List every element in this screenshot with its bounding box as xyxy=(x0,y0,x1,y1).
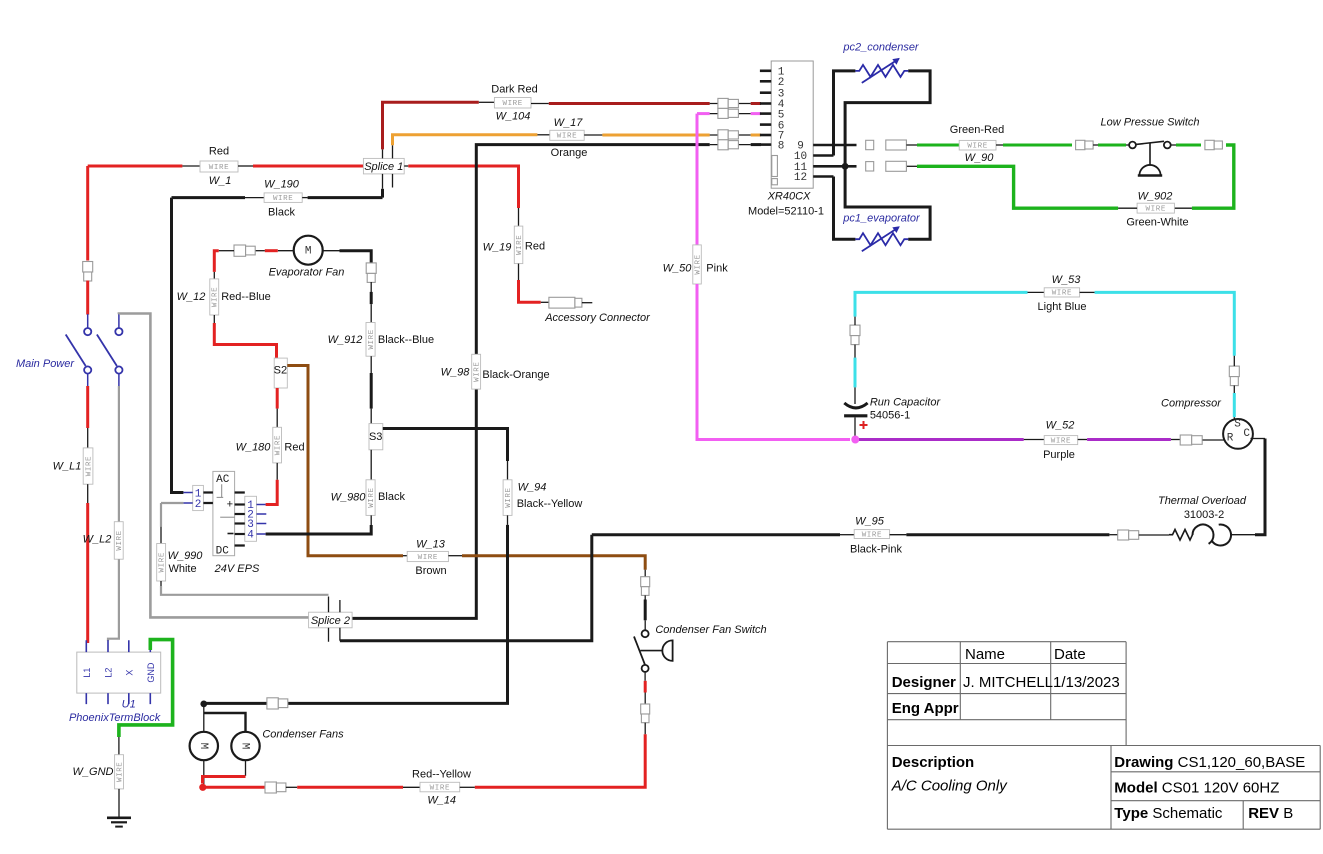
svg-text:Black: Black xyxy=(378,491,405,503)
svg-text:WIRE: WIRE xyxy=(274,435,282,455)
svg-text:W_980: W_980 xyxy=(331,492,367,504)
svg-text:L2: L2 xyxy=(104,668,114,678)
svg-text:WIRE: WIRE xyxy=(967,143,987,151)
svg-text:2: 2 xyxy=(778,77,785,89)
svg-text:A/C Cooling Only: A/C Cooling Only xyxy=(891,778,1009,795)
svg-text:2: 2 xyxy=(195,499,202,511)
svg-text:W_90: W_90 xyxy=(965,152,995,164)
svg-text:M: M xyxy=(197,743,209,750)
svg-text:WIRE: WIRE xyxy=(505,487,513,507)
svg-text:W_L2: W_L2 xyxy=(83,534,112,546)
svg-text:+: + xyxy=(227,499,233,511)
svg-text:WIRE: WIRE xyxy=(116,530,124,550)
svg-text:U1: U1 xyxy=(122,699,136,711)
svg-text:Dark Red: Dark Red xyxy=(491,84,537,96)
svg-text:Purple: Purple xyxy=(1043,449,1075,461)
svg-text:Green-Red: Green-Red xyxy=(950,124,1004,136)
svg-text:S2: S2 xyxy=(274,365,287,377)
svg-text:C: C xyxy=(1243,428,1250,440)
svg-text:Accessory Connector: Accessory Connector xyxy=(544,312,651,324)
svg-text:pc1_evaporator: pc1_evaporator xyxy=(842,213,921,225)
svg-text:WIRE: WIRE xyxy=(862,531,882,539)
svg-text:Evaporator Fan: Evaporator Fan xyxy=(269,267,345,279)
svg-text:REV B: REV B xyxy=(1248,805,1293,822)
svg-text:W_94: W_94 xyxy=(518,482,547,494)
svg-text:S: S xyxy=(1234,419,1241,431)
svg-text:W_52: W_52 xyxy=(1046,420,1075,432)
svg-text:Splice 1: Splice 1 xyxy=(364,161,403,173)
svg-text:8: 8 xyxy=(778,140,785,152)
svg-text:WIRE: WIRE xyxy=(502,100,522,108)
svg-text:Thermal Overload: Thermal Overload xyxy=(1158,495,1247,507)
svg-text:24V EPS: 24V EPS xyxy=(214,563,260,575)
svg-text:W_1: W_1 xyxy=(209,175,232,187)
svg-text:WIRE: WIRE xyxy=(1051,437,1071,445)
svg-text:Condenser Fans: Condenser Fans xyxy=(262,729,344,741)
svg-text:Black-Pink: Black-Pink xyxy=(850,544,902,556)
svg-text:W_180: W_180 xyxy=(236,442,272,454)
svg-text:M: M xyxy=(239,743,251,750)
svg-text:Eng Appr: Eng Appr xyxy=(892,700,959,717)
svg-text:W_53: W_53 xyxy=(1052,274,1082,286)
svg-text:W_GND: W_GND xyxy=(73,766,114,778)
svg-text:Red--Yellow: Red--Yellow xyxy=(412,769,471,781)
svg-text:W_19: W_19 xyxy=(483,242,512,254)
svg-text:WIRE: WIRE xyxy=(368,329,376,349)
svg-text:WIRE: WIRE xyxy=(158,552,166,572)
svg-text:W_912: W_912 xyxy=(328,334,363,346)
svg-text:W_13: W_13 xyxy=(416,539,446,551)
svg-text:54056-1: 54056-1 xyxy=(870,410,910,422)
svg-text:Pink: Pink xyxy=(706,263,728,275)
svg-text:Brown: Brown xyxy=(415,565,446,577)
svg-text:R: R xyxy=(1227,433,1234,445)
svg-text:WIRE: WIRE xyxy=(212,287,220,307)
svg-text:W_14: W_14 xyxy=(427,795,456,807)
svg-text:W_902: W_902 xyxy=(1138,191,1173,203)
svg-text:L1: L1 xyxy=(82,668,92,678)
svg-text:Condenser Fan Switch: Condenser Fan Switch xyxy=(655,624,766,636)
svg-text:WIRE: WIRE xyxy=(1146,205,1166,213)
svg-text:Type Schematic: Type Schematic xyxy=(1114,805,1223,822)
svg-text:W_104: W_104 xyxy=(496,111,531,123)
svg-text:Light Blue: Light Blue xyxy=(1038,301,1087,313)
svg-text:W_190: W_190 xyxy=(264,179,300,191)
svg-text:Black-Orange: Black-Orange xyxy=(482,369,549,381)
svg-text:Red: Red xyxy=(284,442,304,454)
svg-text:White: White xyxy=(168,563,196,575)
svg-text:Orange: Orange xyxy=(551,147,588,159)
svg-text:Splice 2: Splice 2 xyxy=(311,615,350,627)
svg-text:Model=52110-1: Model=52110-1 xyxy=(748,206,824,218)
svg-text:WIRE: WIRE xyxy=(116,762,124,782)
svg-text:AC: AC xyxy=(216,474,230,486)
svg-text:W_17: W_17 xyxy=(554,117,584,129)
svg-text:Description: Description xyxy=(892,754,975,771)
svg-text:Drawing CS1,120_60,BASE: Drawing CS1,120_60,BASE xyxy=(1114,754,1305,771)
svg-text:W_990: W_990 xyxy=(168,550,204,562)
svg-text:WIRE: WIRE xyxy=(209,164,229,172)
svg-text:W_50: W_50 xyxy=(663,263,693,275)
svg-text:Red--Blue: Red--Blue xyxy=(221,291,271,303)
svg-text:WIRE: WIRE xyxy=(694,254,702,274)
svg-text:DC: DC xyxy=(216,546,230,558)
svg-text:WIRE: WIRE xyxy=(368,487,376,507)
svg-text:Black--Yellow: Black--Yellow xyxy=(517,498,583,510)
svg-text:J. MITCHELL: J. MITCHELL xyxy=(963,674,1053,691)
svg-text:Black--Blue: Black--Blue xyxy=(378,334,434,346)
svg-text:Black: Black xyxy=(268,207,295,219)
svg-text:Main Power: Main Power xyxy=(16,358,75,370)
svg-text:Green-White: Green-White xyxy=(1126,217,1188,229)
svg-text:Compressor: Compressor xyxy=(1161,398,1222,410)
svg-text:W_L1: W_L1 xyxy=(53,461,82,473)
svg-text:S3: S3 xyxy=(369,431,382,443)
svg-text:Red: Red xyxy=(525,241,545,253)
svg-text:WIRE: WIRE xyxy=(516,235,524,255)
svg-text:W_95: W_95 xyxy=(855,516,885,528)
svg-text:XR40CX: XR40CX xyxy=(767,191,811,203)
svg-text:WIRE: WIRE xyxy=(418,554,438,562)
svg-text:Low Pressue Switch: Low Pressue Switch xyxy=(1100,117,1199,129)
svg-text:Red: Red xyxy=(209,146,229,158)
svg-text:GND: GND xyxy=(146,662,156,683)
svg-text:M: M xyxy=(305,246,312,258)
svg-text:31003-2: 31003-2 xyxy=(1184,509,1224,521)
svg-text:WIRE: WIRE xyxy=(557,133,577,141)
svg-text:Date: Date xyxy=(1054,646,1086,663)
svg-text:WIRE: WIRE xyxy=(1052,290,1072,298)
svg-text:WIRE: WIRE xyxy=(85,456,93,476)
svg-text:pc2_condenser: pc2_condenser xyxy=(842,42,920,54)
svg-text:WIRE: WIRE xyxy=(430,784,450,792)
svg-text:X: X xyxy=(124,670,134,676)
svg-text:4: 4 xyxy=(247,530,254,542)
svg-text:Run Capacitor: Run Capacitor xyxy=(870,397,942,409)
svg-text:WIRE: WIRE xyxy=(273,195,293,203)
svg-text:Model CS01 120V 60HZ: Model CS01 120V 60HZ xyxy=(1114,780,1279,797)
svg-text:1/13/2023: 1/13/2023 xyxy=(1053,674,1120,691)
svg-text:WIRE: WIRE xyxy=(473,361,481,381)
svg-text:W_12: W_12 xyxy=(177,291,206,303)
svg-text:Designer: Designer xyxy=(892,674,956,691)
svg-text:Name: Name xyxy=(965,646,1005,663)
svg-text:12: 12 xyxy=(794,172,807,184)
svg-text:PhoenixTermBlock: PhoenixTermBlock xyxy=(69,712,161,724)
svg-text:W_98: W_98 xyxy=(441,367,471,379)
